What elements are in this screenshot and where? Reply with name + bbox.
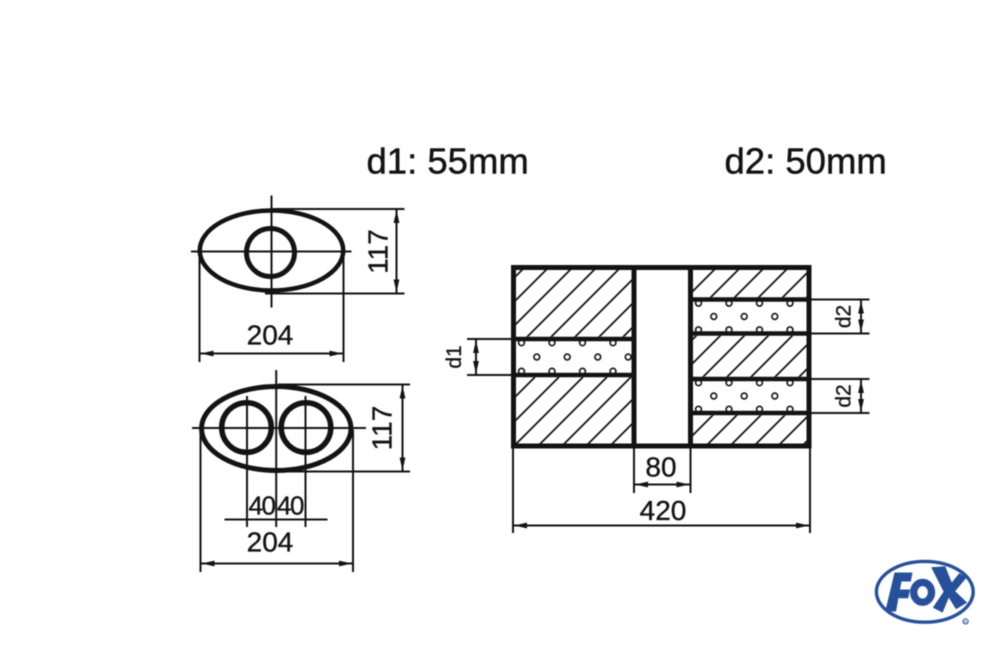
band border d2l bottom — [693, 411, 807, 416]
FOX logo ellipse ring — [876, 561, 973, 622]
dim 117 extension top (bottom oval) — [278, 384, 410, 386]
hatch left-top block — [516, 270, 632, 337]
dim 204 line with arrows (bottom oval) — [201, 563, 354, 565]
svg-text:204: 204 — [247, 320, 294, 351]
centerline horizontal (bottom oval) — [192, 427, 366, 429]
absorber band d2 upper (right block) — [696, 300, 702, 306]
dim 117 extension top (top oval) — [273, 208, 405, 210]
band border d1 top — [516, 337, 632, 342]
dim d2 lower extension top — [809, 378, 870, 380]
dim d2 upper extension bottom — [809, 333, 870, 335]
centerline vertical main (bottom oval) — [275, 370, 277, 527]
dim 117 extension bottom (bottom oval) — [270, 471, 410, 473]
dim d1 extension top — [467, 338, 514, 340]
dim 420 extension left — [512, 446, 514, 533]
dim 80 line with arrows — [634, 484, 691, 486]
svg-text:420: 420 — [640, 495, 687, 526]
dim 80 extension right — [690, 446, 692, 493]
band border d1 bottom — [516, 373, 632, 378]
dim 204 extension right (bottom oval) — [352, 430, 354, 572]
centerline vertical (top oval) — [271, 196, 273, 308]
band border d2u top — [693, 297, 807, 302]
dim 420 extension right — [809, 446, 811, 533]
dim 204 extension left (bottom oval) — [200, 430, 202, 572]
FOX logo letter X — [931, 566, 967, 612]
hatch right-middle block — [693, 336, 807, 377]
FOX logo letter F — [885, 573, 912, 612]
left pipe circle (bottom view) — [222, 403, 272, 453]
svg-text:80: 80 — [645, 452, 676, 483]
centerline right pipe (bottom oval) — [305, 396, 307, 527]
band border d2u bottom — [693, 331, 807, 336]
dim d2 lower extension bottom — [809, 412, 870, 414]
dim d2 upper extension top — [809, 299, 870, 301]
centerline horizontal (top oval) — [191, 251, 352, 253]
dim 420 line with arrows — [513, 525, 810, 527]
svg-text:d2: d2 — [833, 384, 856, 407]
svg-text:d2: 50mm: d2: 50mm — [725, 141, 887, 182]
muffler body outline (section view) — [514, 268, 810, 447]
absorber band d1 (left block) — [519, 340, 525, 346]
dim 117 line with arrows (top oval) — [396, 209, 398, 294]
dim 204 extension right (top oval) — [343, 253, 345, 362]
dim 117 extension bottom (top oval) — [265, 293, 405, 295]
svg-text:40: 40 — [277, 491, 304, 521]
svg-text:117: 117 — [367, 406, 398, 451]
svg-text:204: 204 — [247, 527, 294, 558]
band border d2l top — [693, 377, 807, 382]
svg-text:d1: d1 — [443, 345, 466, 368]
FOX logo registered mark — [963, 619, 968, 624]
chamber divider left wall — [632, 268, 637, 447]
dim d1 line with arrows — [475, 339, 477, 375]
dim d2 upper line with arrows — [860, 300, 862, 334]
dim 204 line with arrows (top oval) — [200, 353, 344, 355]
chamber divider right wall — [688, 268, 693, 447]
FOX logo letter O — [914, 582, 932, 602]
svg-text:d2: d2 — [833, 305, 856, 328]
dim 40/40 line (bottom oval) — [225, 519, 328, 521]
oval shell 204x117 (top view) — [200, 211, 344, 291]
hatch right-top block — [693, 270, 807, 297]
hatch right-bottom block — [693, 415, 807, 443]
dim d2 lower line with arrows — [860, 379, 862, 413]
svg-text:40: 40 — [249, 491, 276, 521]
dim 204 extension left (top oval) — [199, 253, 201, 362]
right pipe circle (bottom view) — [281, 403, 331, 453]
dim 117 line with arrows (bottom oval) — [402, 385, 404, 472]
centerline left pipe (bottom oval) — [246, 396, 248, 527]
svg-text:d1: 55mm: d1: 55mm — [367, 141, 529, 182]
absorber band d2 lower (right block) — [696, 380, 702, 386]
oval shell 204x117 (bottom view) — [202, 387, 352, 471]
dim 80 extension left — [633, 446, 635, 493]
svg-text:117: 117 — [363, 229, 394, 274]
dim d1 extension bottom — [467, 374, 514, 376]
hatch left-bottom block — [516, 377, 632, 443]
pipe d1 circle (top view) — [247, 229, 295, 277]
